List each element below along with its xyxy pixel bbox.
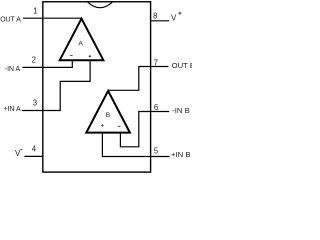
wire pin3 lead to op-amp A non-inverting input [22,60,90,110]
op-amp A non-inverting input marker + [89,55,92,58]
op-amp U1A triangle [60,19,104,61]
svg-text:6: 6 [154,103,158,112]
wire pin1 lead to op-amp A output [23,17,82,19]
wire op-amp B output to pin7 lead [108,67,168,91]
wire pin8 lead V+ [151,20,170,22]
svg-text:A: A [78,40,83,47]
wire pin6 lead to op-amp B inverting input [120,112,169,147]
svg-text:OUT B: OUT B [172,61,192,70]
wire pin4 lead V- [24,155,43,157]
IC package outline [43,2,151,172]
svg-text:V: V [15,149,21,158]
svg-text:2: 2 [32,56,36,65]
op-amp B non-inverting input marker + [101,124,104,127]
svg-text:7: 7 [154,59,158,68]
svg-text:-IN B: -IN B [172,106,190,115]
svg-text:5: 5 [154,147,159,156]
op-amp B inverting input marker - [118,125,121,127]
svg-text:V: V [171,14,177,23]
op-amp U1B triangle [86,91,130,133]
svg-text:1: 1 [33,7,37,16]
op-amp A inverting input marker - [70,54,73,56]
svg-text:3: 3 [33,99,37,108]
pin-1 index notch [88,2,113,8]
svg-text:OUT A: OUT A [0,16,21,23]
svg-text:+IN B: +IN B [171,150,190,159]
wire pin5 lead to op-amp B non-inverting input [102,133,169,157]
svg-text:+IN A: +IN A [4,106,21,113]
svg-text:8: 8 [153,12,157,21]
svg-text:B: B [106,112,111,119]
svg-text:-IN A: -IN A [5,66,21,73]
wire pin2 lead to op-amp A inverting input [23,60,73,67]
svg-text:4: 4 [32,145,37,154]
